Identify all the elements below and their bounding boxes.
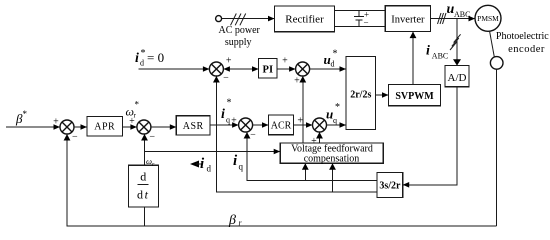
svg-text:+: + bbox=[226, 55, 232, 66]
svg-text:ACR: ACR bbox=[271, 120, 292, 131]
svg-text:+: + bbox=[282, 56, 288, 67]
label i_d with left arrow bbox=[190, 156, 212, 174]
motor PMSM bbox=[475, 5, 501, 31]
label u_ABC bbox=[447, 2, 471, 19]
svg-text:3s/2r: 3s/2r bbox=[379, 181, 401, 192]
svg-text:−: − bbox=[72, 131, 78, 142]
wire: J1 to APR bbox=[74, 124, 87, 130]
svg-text:Photoelectric: Photoelectric bbox=[496, 31, 549, 42]
label omega_r* bbox=[126, 100, 140, 120]
wire: d/dt output (omega_r) up to J2 bbox=[141, 134, 148, 165]
svg-text:*: * bbox=[227, 98, 232, 109]
svg-text:d: d bbox=[140, 58, 144, 67]
wire: J6 to 2r/2s bbox=[327, 122, 347, 128]
svg-text:q: q bbox=[226, 116, 230, 125]
svg-text:*: * bbox=[141, 48, 146, 59]
label u_q* bbox=[326, 102, 340, 125]
svg-text:−: − bbox=[223, 73, 229, 84]
svg-text:i: i bbox=[221, 107, 225, 122]
wire: i_d*=0 into junction J4 bbox=[139, 66, 210, 72]
block Inverter bbox=[385, 6, 430, 32]
summing junction J4 (i_d) bbox=[209, 62, 223, 76]
wire: i_d from 3s/2r up to J4 bbox=[213, 76, 377, 192]
wire: J4 to PI (double arrowheads) bbox=[223, 66, 258, 72]
block ASR bbox=[176, 116, 210, 135]
wire: APR to J2 bbox=[122, 124, 136, 130]
svg-text:+: + bbox=[294, 76, 300, 87]
svg-text:= 0: = 0 bbox=[147, 50, 164, 65]
wire: compensation up to J6 bbox=[316, 132, 323, 143]
label: AC power supply bbox=[219, 25, 261, 48]
wire: beta* input to J1 bbox=[6, 124, 60, 130]
wire: AC source to Rectifier bbox=[222, 16, 275, 22]
svg-text:PI: PI bbox=[263, 64, 274, 75]
label i_d* = 0 bbox=[135, 48, 164, 67]
block Voltage feedforward compensation bbox=[280, 143, 383, 165]
wire: PI to J5 bbox=[277, 66, 296, 72]
three-phase slash marks (i_ABC) bbox=[450, 34, 461, 50]
AC source terminal bbox=[216, 16, 222, 22]
svg-text:d: d bbox=[140, 170, 146, 184]
svg-text:−: − bbox=[149, 132, 155, 143]
svg-text:*: * bbox=[135, 100, 140, 110]
svg-text:d: d bbox=[331, 60, 335, 69]
wire: i_q branch up to compensation bbox=[302, 163, 309, 180]
svg-text:ASR: ASR bbox=[183, 121, 204, 132]
wire: A/D down and left to 3s/2r bbox=[403, 87, 457, 188]
svg-text:d: d bbox=[207, 164, 212, 174]
three-phase slash marks (AC line) bbox=[231, 14, 246, 26]
svg-text:+: + bbox=[53, 116, 59, 127]
block APR bbox=[87, 117, 122, 136]
svg-text:−: − bbox=[250, 130, 256, 141]
svg-text:q: q bbox=[333, 116, 337, 125]
wire: DC bus bottom bbox=[335, 26, 386, 28]
wire: bottom line to d/dt input bbox=[143, 207, 145, 226]
svg-text:+: + bbox=[231, 116, 237, 127]
wire: DC bus top bbox=[335, 10, 386, 12]
svg-text:A/D: A/D bbox=[448, 72, 467, 84]
svg-text:*: * bbox=[23, 109, 28, 119]
svg-text:APR: APR bbox=[94, 122, 115, 133]
wire: omega_r branch to compensation bbox=[145, 149, 281, 155]
wire: J2 to ASR bbox=[151, 124, 176, 130]
wire: i_ABC branch down to A/D bbox=[453, 19, 461, 66]
label: Photoelectric encoder bbox=[496, 31, 549, 55]
svg-text:−: − bbox=[363, 18, 368, 28]
summing junction J2 (speed) bbox=[137, 120, 151, 134]
wire: encoder feedback down bbox=[496, 69, 498, 226]
block d/dt bbox=[128, 165, 158, 207]
svg-text:β: β bbox=[228, 213, 236, 228]
svg-text:i: i bbox=[135, 51, 139, 66]
svg-text:AC power: AC power bbox=[219, 25, 261, 36]
svg-text:Rectifier: Rectifier bbox=[285, 14, 324, 26]
svg-text:d: d bbox=[137, 187, 143, 201]
svg-text:ABC: ABC bbox=[432, 52, 448, 61]
svg-text:PMSM: PMSM bbox=[477, 14, 499, 23]
label i_q* bbox=[221, 98, 232, 125]
wire: i_d branch up to compensation bbox=[329, 163, 336, 192]
label beta* bbox=[15, 109, 28, 126]
wire: ACR to J6 bbox=[294, 122, 313, 128]
label omega_r (small) bbox=[146, 156, 155, 168]
summing junction J3 (i_q) bbox=[239, 118, 253, 132]
svg-text:supply: supply bbox=[225, 37, 252, 48]
wire: Inverter to PMSM (u_ABC) bbox=[431, 16, 476, 22]
encoder circle bbox=[490, 57, 503, 70]
block ACR bbox=[269, 115, 294, 135]
svg-text:*: * bbox=[335, 102, 340, 113]
three-phase slash marks (u_ABC) bbox=[438, 13, 447, 24]
wire: SVPWM up to Inverter bbox=[410, 32, 417, 85]
block Rectifier bbox=[275, 6, 335, 32]
svg-text:i: i bbox=[426, 44, 430, 59]
wire: J3 to ACR bbox=[253, 122, 269, 128]
summing junction J6 (u_q) bbox=[313, 118, 327, 132]
wire: 2r/2s to SVPWM bbox=[376, 92, 389, 98]
capacitor (DC link) bbox=[354, 9, 369, 27]
svg-text:2r/2s: 2r/2s bbox=[350, 90, 371, 101]
wire: ASR to J3 bbox=[210, 122, 239, 128]
block SVPWM bbox=[389, 85, 441, 106]
wire: J5 to 2r/2s bbox=[310, 66, 346, 72]
svg-text:encoder: encoder bbox=[508, 44, 545, 55]
svg-text:Voltage feedforward: Voltage feedforward bbox=[291, 143, 373, 154]
wire: bottom feedback (beta_r) to J1 bbox=[64, 134, 497, 226]
summing junction J5 (u_d) bbox=[296, 62, 310, 76]
block PI bbox=[259, 59, 278, 79]
summing junction J1 (position) bbox=[60, 120, 74, 134]
svg-text:q: q bbox=[239, 162, 244, 172]
svg-text:*: * bbox=[333, 49, 338, 60]
svg-text:ABC: ABC bbox=[454, 10, 470, 19]
label u_d* bbox=[324, 49, 338, 69]
block 2r/2s bbox=[346, 57, 376, 130]
wire: compensation up to J5 bbox=[299, 76, 306, 143]
svg-text:Inverter: Inverter bbox=[391, 14, 425, 25]
svg-text:SVPWM: SVPWM bbox=[395, 91, 434, 102]
label i_ABC bbox=[426, 44, 448, 61]
label i_q (feedback) bbox=[233, 153, 244, 172]
shaft link: PMSM to encoder bbox=[490, 31, 495, 57]
block 3s/2r bbox=[377, 173, 403, 198]
wire: i_q from 3s/2r up to J3 bbox=[244, 132, 377, 181]
label beta_r bbox=[228, 213, 243, 228]
svg-text:compensation: compensation bbox=[304, 154, 360, 165]
block A/D bbox=[445, 66, 469, 87]
